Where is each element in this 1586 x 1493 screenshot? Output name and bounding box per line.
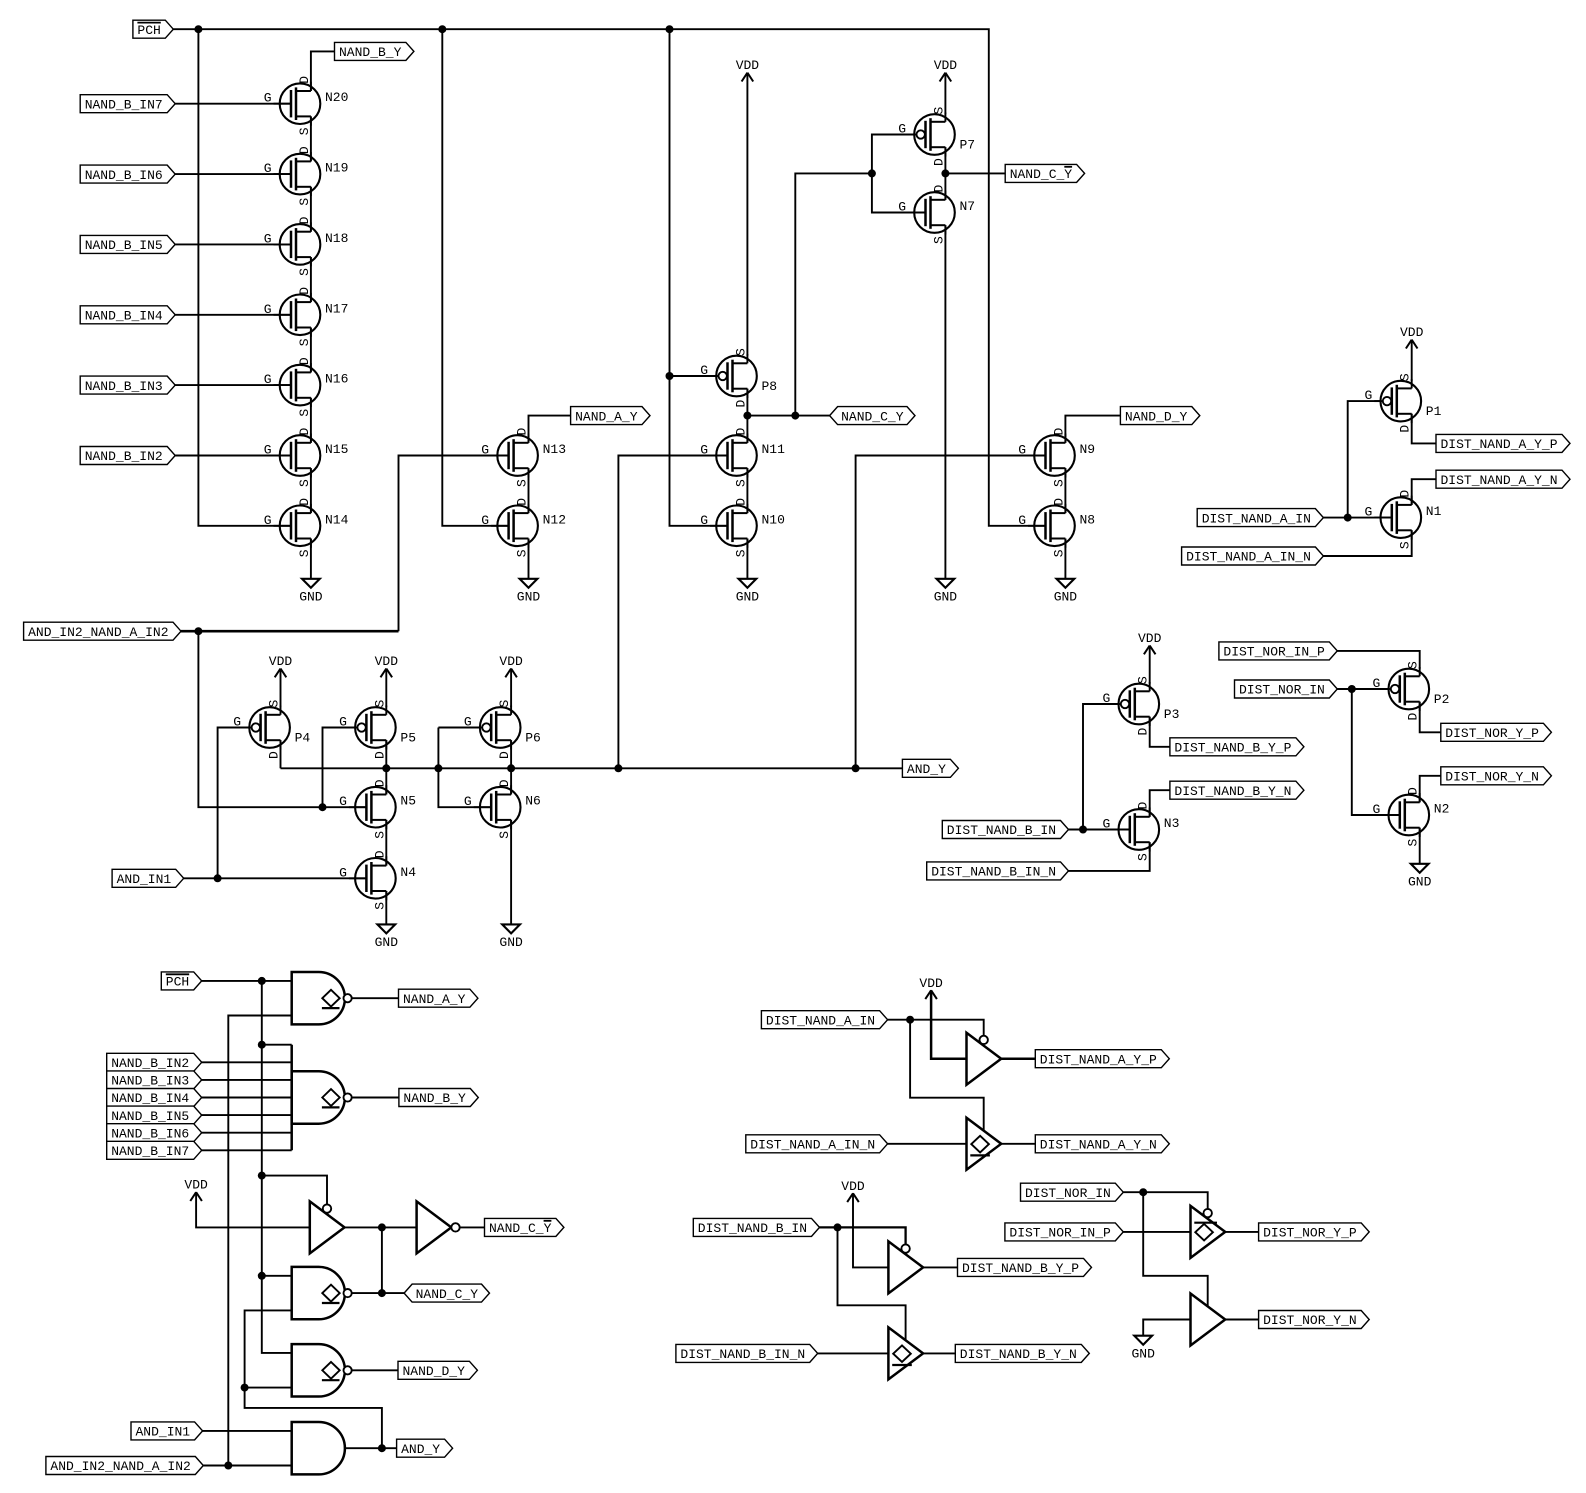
wire buf6 output <box>1225 1319 1258 1321</box>
wire N-chain segment <box>310 328 312 373</box>
svg-text:NAND_B_IN6: NAND_B_IN6 <box>111 1126 189 1141</box>
svg-text:N2: N2 <box>1434 802 1450 817</box>
junction node/N11 riser <box>614 764 622 772</box>
wire NAND_B_IN3 to gate <box>174 384 291 386</box>
wire N4.S to GND <box>385 891 387 924</box>
svg-text:G: G <box>898 200 906 215</box>
svg-text:PCH: PCH <box>166 975 189 990</box>
svg-text:S: S <box>297 268 312 276</box>
svg-text:G: G <box>1102 817 1110 832</box>
buffer U-B1 (enable bubble) <box>888 1241 923 1293</box>
junction node/P5-N5 <box>382 764 390 772</box>
svg-text:DIST_NAND_A_Y_P: DIST_NAND_A_Y_P <box>1441 437 1558 452</box>
wire AND_IN2 horizontal <box>181 630 399 633</box>
svg-text:DIST_NAND_A_Y_N: DIST_NAND_A_Y_N <box>1441 473 1558 488</box>
net label AND_IN2_NAND_A_IN2 (bottom) <box>46 1457 203 1475</box>
transistor N10 (NMOS) <box>700 498 785 558</box>
wire N1.S to label <box>1323 530 1411 556</box>
wire N8.S to GND <box>1064 539 1066 579</box>
transistor N2 (NMOS) <box>1372 787 1449 847</box>
svg-text:N5: N5 <box>400 794 416 809</box>
svg-text:D: D <box>1406 787 1421 795</box>
wire N12 source to GND <box>528 539 530 579</box>
svg-text:G: G <box>700 443 708 458</box>
wire N7 gate <box>872 173 926 212</box>
ground <box>934 579 958 605</box>
svg-text:G: G <box>264 231 272 246</box>
wire DIST_NAND_A_IN to enable <box>888 1020 984 1036</box>
power symbol VDD <box>1138 631 1162 654</box>
svg-text:S: S <box>733 479 748 487</box>
transistor P7 (PMOS) <box>898 107 975 167</box>
power symbol VDD <box>1400 325 1424 348</box>
net label DIST_NOR_IN (bottom) <box>1021 1183 1124 1201</box>
NAND gate U-D (NAND_D_Y) <box>292 1344 352 1396</box>
svg-text:NAND_B_IN7: NAND_B_IN7 <box>85 97 163 112</box>
svg-text:G: G <box>1364 388 1372 403</box>
wire DIST_NAND_B_Y_N to N3.D <box>1150 790 1170 817</box>
net label DIST_NAND_A_IN (bottom) <box>761 1011 887 1029</box>
svg-text:S: S <box>1406 661 1421 669</box>
net label NAND_B_IN4 (bottom) <box>107 1089 202 1107</box>
svg-text:D: D <box>733 400 748 408</box>
svg-text:N3: N3 <box>1164 816 1180 831</box>
ground <box>1408 864 1432 890</box>
svg-text:N16: N16 <box>325 372 348 387</box>
net label NAND_B_IN3 (bottom) <box>107 1071 202 1089</box>
net label AND_IN2_NAND_A_IN2 (top) <box>24 622 181 640</box>
svg-text:N10: N10 <box>762 512 785 527</box>
wire AND output <box>345 1447 397 1449</box>
wire P6-N6 gate link <box>438 727 480 729</box>
svg-text:VDD: VDD <box>184 1178 208 1193</box>
svg-text:D: D <box>515 428 530 436</box>
svg-text:D: D <box>515 498 530 506</box>
junction NAND_C_Yb node <box>941 169 949 177</box>
net label AND_Y (top) <box>902 759 958 777</box>
net label DIST_NOR_Y_N (bottom) <box>1259 1311 1370 1329</box>
svg-text:S: S <box>1051 549 1066 557</box>
junction NOR_IN/N2 gate <box>1348 685 1356 693</box>
junction PCH/NAND-B <box>258 1041 266 1049</box>
wire P7 gate <box>872 135 915 174</box>
svg-text:NAND_C_Y: NAND_C_Y <box>416 1287 479 1302</box>
wire NAND-C lower input net <box>245 1310 382 1448</box>
wire PCH to NAND-A input <box>202 980 292 982</box>
svg-text:NAND_C_Y: NAND_C_Y <box>1010 167 1073 182</box>
svg-text:S: S <box>497 700 512 708</box>
power symbol VDD <box>269 654 293 677</box>
wire NAND_D_Y from N9 drain <box>1065 416 1120 443</box>
svg-text:GND: GND <box>934 590 958 605</box>
svg-text:P5: P5 <box>400 731 416 746</box>
svg-text:D: D <box>372 850 387 858</box>
net label AND_Y (bottom) <box>397 1439 453 1457</box>
net label DIST_NOR_IN (mid) <box>1235 680 1338 698</box>
svg-text:P4: P4 <box>295 731 311 746</box>
svg-text:D: D <box>733 428 748 436</box>
transistor N12 (NMOS) <box>481 498 566 558</box>
svg-text:N14: N14 <box>325 512 349 527</box>
net label NAND_A_Y (bottom) <box>399 989 478 1007</box>
svg-text:NAND_B_IN4: NAND_B_IN4 <box>85 309 163 324</box>
junction AND_IN2 junction <box>224 1462 232 1470</box>
svg-text:S: S <box>1051 479 1066 487</box>
transistor N14 (NMOS) <box>264 498 349 558</box>
net label DIST_NAND_A_IN_N <box>1182 547 1324 565</box>
wire P4 gate riser <box>218 728 251 879</box>
svg-text:DIST_NAND_B_IN: DIST_NAND_B_IN <box>947 823 1056 838</box>
svg-text:DIST_NAND_B_Y_N: DIST_NAND_B_Y_N <box>960 1347 1077 1362</box>
inverter U-C2 (output bubble) <box>417 1201 460 1253</box>
svg-text:N17: N17 <box>325 301 348 316</box>
net label NAND_B_IN3 <box>80 376 175 394</box>
wire VDD to P7 source <box>944 73 946 115</box>
wire NAND_B_IN3 to gate <box>201 1079 292 1081</box>
wire bufA2 output <box>1001 1143 1035 1145</box>
svg-text:NAND_B_IN5: NAND_B_IN5 <box>85 238 163 253</box>
NAND gate U-B 7-input (NAND_B_Y) <box>292 1071 352 1123</box>
svg-text:S: S <box>497 831 512 839</box>
wire AND_IN1 to AND gate <box>202 1430 292 1432</box>
svg-text:N15: N15 <box>325 442 348 457</box>
wire PCH to NAND-C input <box>262 1275 292 1277</box>
net label DIST_NAND_A_Y_P <box>1436 434 1570 452</box>
wire PCH to P8/N10 gates <box>670 29 728 526</box>
svg-text:N11: N11 <box>762 442 786 457</box>
transistor N19 (NMOS) <box>264 146 349 206</box>
svg-text:D: D <box>733 498 748 506</box>
svg-text:GND: GND <box>499 935 523 950</box>
wire PCH to N12 gate <box>442 29 508 526</box>
ground <box>299 579 323 605</box>
net label AND_IN1 (top) <box>112 869 184 887</box>
wire tee down to NAND_C_Y <box>381 1227 383 1293</box>
svg-text:G: G <box>264 513 272 528</box>
buffer U-C1 (enable bubble) <box>310 1201 345 1253</box>
net label DIST_NAND_B_IN_N (bottom) <box>676 1344 818 1362</box>
svg-text:G: G <box>700 513 708 528</box>
wire P3 gate riser <box>1083 704 1119 830</box>
svg-text:D: D <box>1398 425 1413 433</box>
junction B_IN/P3 gate <box>1079 826 1087 834</box>
transistor N4 (NMOS) <box>339 850 416 910</box>
svg-text:S: S <box>733 549 748 557</box>
svg-text:NAND_B_IN2: NAND_B_IN2 <box>111 1056 189 1071</box>
svg-text:N9: N9 <box>1080 442 1096 457</box>
junction AND_IN2/down <box>194 627 202 635</box>
svg-text:G: G <box>264 161 272 176</box>
wire N14 source to GND <box>310 539 312 579</box>
junction PCH/NAND-C <box>258 1272 266 1280</box>
svg-text:D: D <box>297 146 312 154</box>
transistor P6 (PMOS) <box>464 700 541 760</box>
svg-text:S: S <box>931 107 946 115</box>
net label AND_IN1 (bottom) <box>131 1422 203 1440</box>
svg-text:S: S <box>297 127 312 135</box>
wire NAND_B_IN6 to gate <box>201 1132 292 1134</box>
wire NOR_IN to enable <box>1123 1192 1207 1209</box>
wire N11.S-N10.D <box>746 468 748 513</box>
junction PCH/P8-N10 <box>666 25 674 33</box>
wire NAND_B_IN2 to gate <box>174 455 291 457</box>
net label DIST_NAND_A_Y_N (bottom) <box>1035 1135 1169 1153</box>
net label DIST_NOR_IN_P (bottom) <box>1005 1223 1123 1241</box>
svg-text:VDD: VDD <box>1400 325 1424 340</box>
wire DIST_NOR_Y_N to N2.D <box>1420 776 1441 803</box>
wire N7.S to GND <box>944 225 946 579</box>
buffer U-N1 (enable bubble, diamond) <box>1191 1206 1226 1258</box>
svg-text:DIST_NAND_A_IN_N: DIST_NAND_A_IN_N <box>750 1138 875 1153</box>
transistor N13 (NMOS) <box>481 428 566 488</box>
wire AND_IN2 to N5 gate <box>198 631 366 807</box>
NAND gate U-C (NAND_C_Y) <box>292 1267 352 1319</box>
svg-text:GND: GND <box>1408 875 1432 890</box>
buffer U-A1 (enable bubble) <box>967 1033 1002 1085</box>
ground <box>375 924 399 950</box>
svg-text:G: G <box>1364 505 1372 520</box>
wire N-chain segment <box>310 116 312 161</box>
wire AND_Y to N11 gate <box>618 456 727 769</box>
net label NAND_C_Y (top) <box>830 407 915 425</box>
junction NOR_IN tee <box>1139 1188 1147 1196</box>
transistor N3 (NMOS) <box>1102 802 1179 862</box>
svg-text:S: S <box>1406 839 1421 847</box>
svg-text:G: G <box>1018 443 1026 458</box>
wire NAND-A output <box>352 997 399 999</box>
svg-text:AND_IN1: AND_IN1 <box>117 872 172 887</box>
svg-text:G: G <box>264 91 272 106</box>
net label NAND_B_IN6 (bottom) <box>107 1124 202 1142</box>
svg-text:D: D <box>297 287 312 295</box>
ground <box>736 579 760 605</box>
junction PCH/buffer enable <box>258 1172 266 1180</box>
wire buffer1 to buffer2 <box>345 1226 417 1228</box>
svg-text:NAND_B_IN5: NAND_B_IN5 <box>111 1109 189 1124</box>
transistor N6 (NMOS) <box>464 779 541 838</box>
net label NAND_B_IN2 <box>80 447 175 465</box>
svg-text:NAND_C_Y: NAND_C_Y <box>841 409 904 424</box>
wire DIST_NOR_IN to P2 gate <box>1337 688 1389 690</box>
svg-text:D: D <box>931 158 946 166</box>
svg-text:G: G <box>1018 513 1026 528</box>
svg-text:DIST_NAND_A_IN: DIST_NAND_A_IN <box>766 1013 875 1028</box>
svg-text:NAND_B_IN2: NAND_B_IN2 <box>85 449 163 464</box>
svg-text:S: S <box>297 338 312 346</box>
svg-text:P1: P1 <box>1426 404 1442 419</box>
transistor N7 (NMOS) <box>898 185 975 245</box>
net label NAND_D_Y (bottom) <box>398 1361 477 1379</box>
AND gate U-E (AND_Y) <box>292 1422 345 1474</box>
wire A_IN_N to bufA2 <box>888 1143 967 1145</box>
net label DIST_NAND_B_Y_N (mid) <box>1170 781 1304 799</box>
svg-text:D: D <box>267 751 282 759</box>
svg-text:G: G <box>233 715 241 730</box>
net label DIST_NAND_A_Y_N <box>1436 470 1570 488</box>
svg-text:DIST_NOR_IN_P: DIST_NOR_IN_P <box>1223 645 1325 660</box>
wire NAND_C_Y riser <box>795 173 872 415</box>
svg-text:G: G <box>264 443 272 458</box>
svg-text:P3: P3 <box>1164 707 1180 722</box>
wire P4 drain <box>280 740 282 768</box>
transistor N18 (NMOS) <box>264 216 349 276</box>
svg-text:G: G <box>1372 802 1380 817</box>
svg-text:S: S <box>515 479 530 487</box>
wire NOR_IN to buf6 enable <box>1143 1192 1208 1306</box>
junction PCH/N12 <box>438 25 446 33</box>
svg-text:S: S <box>297 479 312 487</box>
wire AND_IN1 to N4 gate <box>183 877 367 879</box>
net label NAND_C_Y (bottom) <box>404 1284 489 1302</box>
svg-text:S: S <box>1398 541 1413 549</box>
wire B_IN to enable <box>820 1227 906 1244</box>
net label NAND_B_IN7 (bottom) <box>107 1141 202 1159</box>
net label DIST_NAND_B_Y_N (bottom) <box>955 1344 1089 1362</box>
wire PCH vertical <box>262 981 292 1353</box>
svg-text:DIST_NAND_A_Y_N: DIST_NAND_A_Y_N <box>1040 1138 1157 1153</box>
wire N3.S to label <box>1069 842 1150 871</box>
wire PCH to NAND-B pin <box>262 1044 292 1046</box>
svg-text:D: D <box>497 779 512 787</box>
wire N13.S-N12.D <box>528 468 530 513</box>
net label DIST_NOR_Y_N (mid) <box>1441 767 1552 785</box>
svg-text:S: S <box>1136 853 1151 861</box>
wire bufB1 output <box>923 1266 957 1268</box>
NAND gate U-B input extension <box>290 1045 293 1151</box>
wire NAND_B_IN4 to gate <box>174 314 291 316</box>
svg-text:G: G <box>464 715 472 730</box>
svg-text:N12: N12 <box>543 512 566 527</box>
net label DIST_NAND_A_Y_P (bottom) <box>1035 1050 1169 1068</box>
transistor N20 (NMOS) <box>264 76 349 136</box>
net label PCH (top) <box>133 20 173 38</box>
junction A_IN tee <box>906 1016 914 1024</box>
svg-text:D: D <box>297 76 312 84</box>
net label NAND_C_Y_bar (bottom) <box>485 1218 564 1236</box>
transistor N15 (NMOS) <box>264 428 349 488</box>
net label NAND_C_Y_bar (top) <box>1005 164 1084 182</box>
wire DIST_NAND_B_IN to N3 gate <box>1069 829 1130 831</box>
svg-text:G: G <box>481 443 489 458</box>
svg-text:NAND_A_Y: NAND_A_Y <box>575 409 638 424</box>
svg-text:D: D <box>1398 490 1413 498</box>
svg-text:DIST_NAND_A_IN: DIST_NAND_A_IN <box>1202 511 1311 526</box>
svg-text:S: S <box>733 348 748 356</box>
junction A_IN/P1 gate <box>1344 514 1352 522</box>
power symbol VDD (dist A) <box>919 976 943 999</box>
svg-text:G: G <box>339 865 347 880</box>
svg-text:N20: N20 <box>325 90 348 105</box>
transistor N5 (NMOS) <box>339 779 416 839</box>
transistor N9 (NMOS) <box>1018 428 1095 488</box>
svg-text:NAND_D_Y: NAND_D_Y <box>1125 409 1188 424</box>
wire VDD to PMOS source <box>510 669 512 708</box>
junction NAND_C_Y/riser <box>791 412 799 420</box>
junction node/N9 riser <box>852 764 860 772</box>
wire bufB2 output <box>923 1352 955 1354</box>
wire NAND-B output <box>352 1097 399 1099</box>
svg-text:GND: GND <box>736 590 760 605</box>
svg-text:DIST_NOR_Y_P: DIST_NOR_Y_P <box>1445 726 1539 741</box>
svg-text:NAND_A_Y: NAND_A_Y <box>403 992 466 1007</box>
wire VDD to bufB1 input <box>853 1193 888 1267</box>
wire P5 gate riser <box>323 728 357 808</box>
wire A_IN to bufA2 enable <box>910 1020 984 1131</box>
wire inverter out to label <box>460 1226 484 1228</box>
svg-text:S: S <box>267 700 282 708</box>
svg-text:VDD: VDD <box>1138 631 1162 646</box>
wire buf5 output <box>1225 1231 1258 1233</box>
wire VDD to P1 source <box>1411 340 1413 381</box>
svg-text:GND: GND <box>517 590 541 605</box>
wire NAND-A lower input riser <box>228 1016 291 1466</box>
svg-text:D: D <box>1136 728 1151 736</box>
junction PCH/N14 <box>194 25 202 33</box>
wire N-chain segment <box>310 398 312 443</box>
junction PCH/P8 gate <box>666 372 674 380</box>
wire DIST_NOR_IN_P to P2.S <box>1337 651 1419 669</box>
wire VDD to PMOS source <box>385 669 387 708</box>
svg-text:S: S <box>297 409 312 417</box>
wire PCH to N14 gate <box>198 29 291 526</box>
svg-text:N19: N19 <box>325 161 348 176</box>
svg-text:DIST_NAND_B_IN_N: DIST_NAND_B_IN_N <box>680 1347 805 1362</box>
svg-text:AND_Y: AND_Y <box>401 1442 440 1457</box>
junction NAND_C_Y node <box>743 412 751 420</box>
junction AND_Y junction <box>378 1444 386 1452</box>
svg-text:AND_Y: AND_Y <box>907 762 946 777</box>
svg-text:VDD: VDD <box>269 654 293 669</box>
svg-text:D: D <box>1406 713 1421 721</box>
svg-text:VDD: VDD <box>499 654 523 669</box>
svg-text:D: D <box>372 751 387 759</box>
svg-text:G: G <box>464 794 472 809</box>
svg-text:NAND_B_Y: NAND_B_Y <box>403 1091 466 1106</box>
wire P1 gate riser <box>1348 401 1382 517</box>
wire NAND_B_IN6 to gate <box>174 173 291 175</box>
svg-text:DIST_NOR_Y_N: DIST_NOR_Y_N <box>1445 770 1539 785</box>
svg-text:S: S <box>372 700 387 708</box>
net label DIST_NAND_B_Y_P (bottom) <box>958 1258 1092 1276</box>
svg-text:NAND_B_IN6: NAND_B_IN6 <box>85 168 163 183</box>
svg-text:DIST_NOR_Y_N: DIST_NOR_Y_N <box>1263 1313 1357 1328</box>
power symbol VDD <box>375 654 399 677</box>
transistor P8 (PMOS) <box>700 348 777 408</box>
svg-text:N4: N4 <box>400 865 416 880</box>
wire B_IN_N to bufB2 <box>818 1352 889 1354</box>
transistor P1 (PMOS) <box>1364 373 1441 433</box>
ground <box>517 579 541 605</box>
transistor N1 (NMOS) <box>1364 490 1441 549</box>
svg-text:D: D <box>372 779 387 787</box>
svg-text:D: D <box>931 185 946 193</box>
wire NAND_B_IN2 to gate <box>201 1061 292 1063</box>
svg-text:G: G <box>339 794 347 809</box>
svg-text:P6: P6 <box>525 731 541 746</box>
wire DIST_NAND_A_Y_N to N1.D <box>1412 479 1436 505</box>
svg-text:NAND_B_Y: NAND_B_Y <box>339 45 402 60</box>
wire N6.S to GND <box>510 820 512 925</box>
wire B_IN to bufB2 enable <box>838 1227 906 1340</box>
svg-text:D: D <box>1051 498 1066 506</box>
svg-text:GND: GND <box>375 935 399 950</box>
wire GND to buf6 input <box>1143 1320 1190 1336</box>
svg-text:DIST_NAND_B_Y_P: DIST_NAND_B_Y_P <box>1174 741 1291 756</box>
ground <box>1054 579 1078 605</box>
junction gate tee P7/N7 <box>868 169 876 177</box>
junction buf chain tee <box>378 1223 386 1231</box>
svg-text:DIST_NOR_IN_P: DIST_NOR_IN_P <box>1009 1226 1111 1241</box>
